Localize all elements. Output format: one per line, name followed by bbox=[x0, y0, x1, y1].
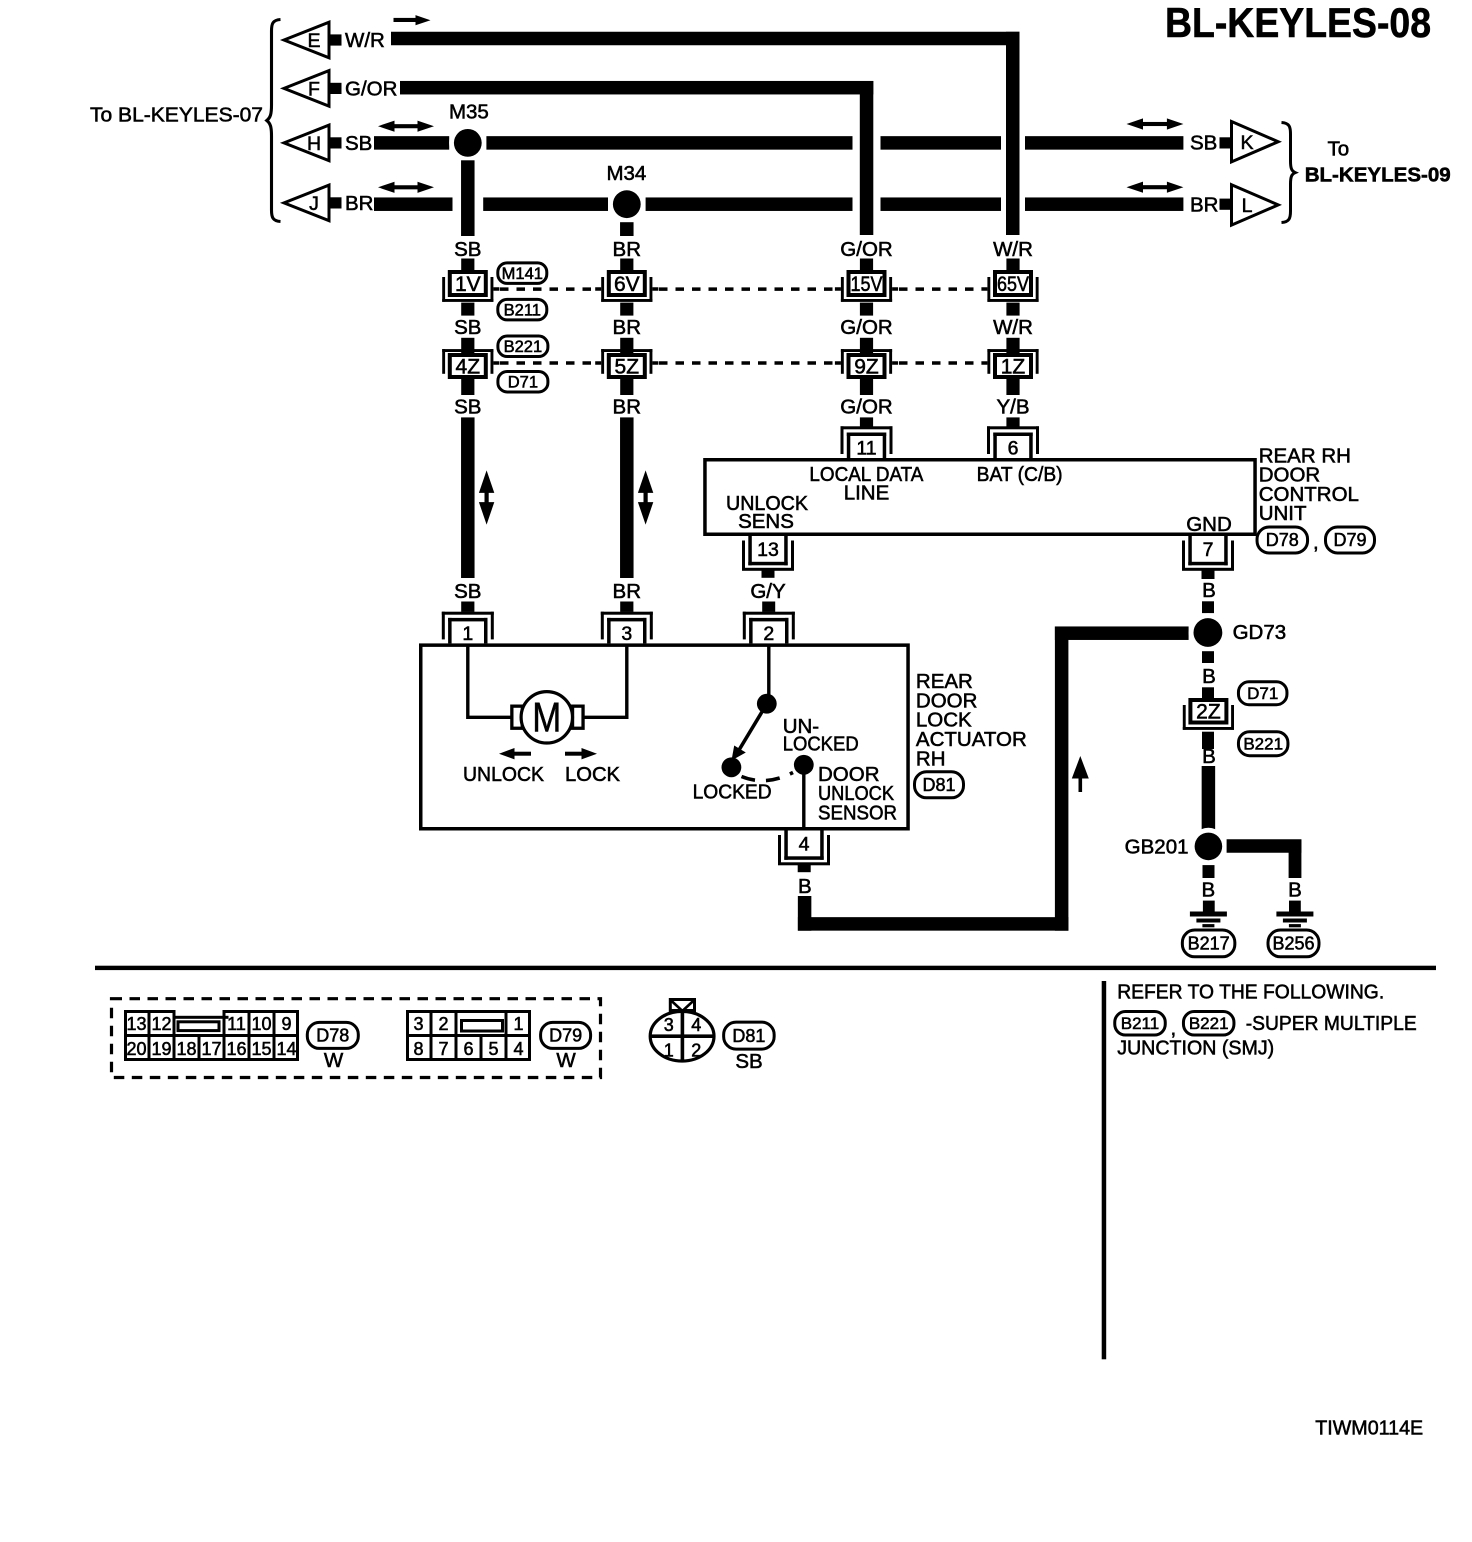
stub F bbox=[329, 83, 342, 94]
svg-text:7: 7 bbox=[438, 1039, 448, 1059]
svg-text:E: E bbox=[307, 30, 320, 52]
svg-text:GD73: GD73 bbox=[1233, 621, 1287, 644]
svg-text:GB201: GB201 bbox=[1125, 835, 1189, 858]
svg-text:W/R: W/R bbox=[993, 238, 1033, 261]
svg-text:4: 4 bbox=[691, 1015, 701, 1035]
ground symbol B217 bbox=[1190, 912, 1227, 917]
svg-text:11: 11 bbox=[856, 438, 876, 460]
double arrow row H left bbox=[378, 121, 395, 132]
wire dash below GB201 bbox=[1203, 865, 1215, 878]
oval B217 bbox=[1182, 930, 1235, 957]
dashed line Z-row bbox=[500, 361, 595, 365]
stub below 1Z bbox=[1006, 379, 1019, 395]
switch common dot bbox=[757, 694, 777, 714]
svg-text:-SUPER MULTIPLE: -SUPER MULTIPLE bbox=[1246, 1012, 1417, 1035]
wire pin3 to motor bbox=[584, 646, 627, 717]
svg-text:D79: D79 bbox=[549, 1026, 582, 1046]
wire B from pin 4 down bbox=[798, 896, 812, 931]
connector face D78 bbox=[124, 1010, 176, 1013]
svg-text:B: B bbox=[1288, 879, 1302, 902]
svg-text:B211: B211 bbox=[1121, 1014, 1159, 1033]
svg-text:9: 9 bbox=[281, 1014, 291, 1034]
separator vertical line bbox=[1102, 981, 1107, 1359]
svg-text:UNIT: UNIT bbox=[1259, 502, 1307, 525]
svg-text:B221: B221 bbox=[1189, 1014, 1229, 1033]
svg-text:SENSOR: SENSOR bbox=[818, 802, 897, 825]
svg-text:19: 19 bbox=[151, 1039, 171, 1059]
double arrow on SB wire bbox=[479, 470, 494, 493]
svg-text:3: 3 bbox=[664, 1015, 674, 1035]
svg-text:1: 1 bbox=[513, 1014, 523, 1034]
svg-text:LOCKED: LOCKED bbox=[783, 733, 859, 756]
right brace bbox=[1282, 123, 1296, 223]
stub above pin 1 bbox=[461, 602, 474, 612]
svg-text:SB: SB bbox=[345, 132, 372, 155]
svg-text:Y/B: Y/B bbox=[996, 396, 1029, 419]
svg-text:M34: M34 bbox=[606, 162, 646, 185]
svg-text:2: 2 bbox=[691, 1041, 701, 1061]
arrow right above W/R wire bbox=[394, 18, 418, 22]
wire G/OR corner vertical to column 3 bbox=[860, 81, 874, 235]
svg-text:D71: D71 bbox=[508, 373, 538, 391]
pin 2 door unlock sensor bbox=[743, 612, 795, 615]
svg-text:6: 6 bbox=[463, 1039, 473, 1059]
svg-text:9Z: 9Z bbox=[854, 355, 879, 378]
svg-text:JUNCTION (SMJ): JUNCTION (SMJ) bbox=[1117, 1037, 1274, 1060]
stub above pin 11 bbox=[860, 417, 873, 427]
svg-text:B: B bbox=[1202, 745, 1216, 768]
svg-text:SB: SB bbox=[454, 396, 481, 419]
svg-text:W/R: W/R bbox=[993, 316, 1033, 339]
svg-text:G/OR: G/OR bbox=[840, 316, 892, 339]
svg-text:H: H bbox=[307, 133, 321, 155]
svg-text:1V: 1V bbox=[455, 273, 481, 296]
wire B to GB201 bbox=[1202, 766, 1216, 833]
oval D81 detail bbox=[724, 1022, 775, 1049]
svg-text:M35: M35 bbox=[449, 101, 489, 124]
wire sensor dot to pin 4 bbox=[802, 772, 805, 828]
stub above 1Z bbox=[1006, 338, 1019, 353]
oval D79 ref bbox=[1326, 527, 1375, 553]
svg-text:RH: RH bbox=[916, 748, 946, 771]
svg-text:REFER TO THE FOLLOWING.: REFER TO THE FOLLOWING. bbox=[1117, 981, 1384, 1004]
svg-text:2Z: 2Z bbox=[1196, 701, 1221, 724]
svg-text:14: 14 bbox=[276, 1039, 296, 1059]
svg-text:5: 5 bbox=[488, 1039, 498, 1059]
svg-text:SB: SB bbox=[454, 238, 481, 261]
long wire BR to actuator bbox=[620, 417, 634, 578]
SMJ connector 9Z bbox=[849, 355, 885, 377]
svg-text:LINE: LINE bbox=[844, 481, 890, 504]
svg-text:12: 12 bbox=[151, 1014, 171, 1034]
svg-text:GND: GND bbox=[1186, 513, 1232, 536]
svg-text:BR: BR bbox=[613, 580, 641, 603]
wire G/OR row F horizontal bbox=[400, 81, 873, 95]
stub above B256 ground bbox=[1289, 901, 1301, 912]
wire B top horizontal to GD73 bbox=[1055, 626, 1189, 640]
junction GB201 bbox=[1190, 828, 1227, 865]
SMJ connector 15V bbox=[849, 272, 885, 295]
oval D79 detail bbox=[541, 1022, 591, 1048]
svg-text:SB: SB bbox=[454, 316, 481, 339]
oval B211 bbox=[498, 299, 547, 320]
double arrow row J left bbox=[378, 182, 395, 193]
wire pin1 to motor bbox=[468, 646, 511, 717]
stub J bbox=[329, 197, 342, 208]
arrow lock right bbox=[582, 748, 598, 759]
svg-text:B221: B221 bbox=[1243, 735, 1283, 754]
wire W/R corner vertical to column 4 bbox=[1006, 32, 1020, 235]
dashed line V-row bbox=[500, 287, 595, 291]
svg-text:16: 16 bbox=[226, 1039, 246, 1059]
wire SB row H segment 2 bbox=[486, 136, 852, 150]
stub E bbox=[329, 34, 342, 45]
svg-text:LOCK: LOCK bbox=[565, 763, 620, 786]
wire dash segment bbox=[1202, 601, 1214, 613]
wire B right vertical up bbox=[1055, 627, 1069, 931]
svg-text:B: B bbox=[1202, 665, 1216, 688]
svg-text:To BL-KEYLES-07: To BL-KEYLES-07 bbox=[90, 104, 263, 127]
wire BR row J segment 1 bbox=[374, 197, 453, 211]
arrow unlock left bbox=[499, 748, 515, 759]
stub K bbox=[1220, 137, 1232, 148]
svg-text:G/OR: G/OR bbox=[345, 77, 397, 100]
svg-text:M: M bbox=[532, 693, 561, 740]
SMJ connector 1V bbox=[450, 272, 486, 295]
SMJ connector 6V bbox=[609, 272, 645, 295]
svg-text:F: F bbox=[308, 78, 320, 100]
motor right tab bbox=[573, 706, 584, 728]
svg-text:G/Y: G/Y bbox=[750, 580, 786, 603]
wire B bottom horizontal bbox=[798, 917, 1069, 931]
stub above pin 2 bbox=[762, 602, 775, 612]
svg-text:BL-KEYLES-08: BL-KEYLES-08 bbox=[1165, 0, 1431, 46]
stub below pin 4 bbox=[798, 865, 811, 873]
SMJ connector 4Z bbox=[450, 355, 486, 377]
stub below pin 13 bbox=[762, 571, 775, 578]
column x=626.8 upper vertical wire bbox=[620, 222, 634, 236]
switch locked dot bbox=[722, 757, 742, 777]
connector face D81 cross bbox=[650, 1034, 714, 1038]
oval D71 bbox=[498, 371, 548, 392]
pin 1 rear door lock actuator bbox=[442, 612, 494, 615]
svg-text:D78: D78 bbox=[1266, 530, 1299, 550]
stub below 6V bbox=[620, 303, 633, 316]
svg-text:8: 8 bbox=[413, 1039, 423, 1059]
SMJ connector 2Z bbox=[1190, 700, 1226, 723]
svg-text:SENS: SENS bbox=[738, 510, 794, 533]
stub above 9Z bbox=[860, 338, 873, 353]
svg-text:18: 18 bbox=[176, 1039, 196, 1059]
svg-text:K: K bbox=[1240, 132, 1253, 154]
svg-text:B: B bbox=[1202, 579, 1216, 602]
oval B221 bbox=[498, 336, 548, 357]
oval B211 note bbox=[1115, 1012, 1166, 1036]
svg-text:SB: SB bbox=[454, 580, 481, 603]
junction M34 bbox=[608, 186, 645, 223]
oval M141 bbox=[498, 263, 547, 284]
svg-text:1: 1 bbox=[664, 1041, 674, 1061]
svg-text:B211: B211 bbox=[504, 301, 541, 319]
svg-text:B256: B256 bbox=[1272, 934, 1314, 954]
dashed switch arc bbox=[742, 773, 794, 781]
svg-text:W/R: W/R bbox=[345, 29, 385, 52]
svg-text:J: J bbox=[309, 193, 319, 215]
svg-text:4: 4 bbox=[799, 833, 810, 855]
svg-text:B: B bbox=[798, 875, 812, 898]
connector triangle L bbox=[1232, 185, 1279, 225]
stub below 15V bbox=[860, 303, 873, 316]
pin 3 rear door lock actuator bbox=[601, 612, 653, 615]
connector face D81 key tab bbox=[670, 1000, 694, 1011]
svg-text:D71: D71 bbox=[1247, 684, 1278, 703]
oval D78 ref bbox=[1257, 527, 1308, 553]
svg-text:BAT (C/B): BAT (C/B) bbox=[977, 463, 1063, 486]
stub below 1V bbox=[461, 303, 474, 316]
svg-text:6V: 6V bbox=[614, 273, 640, 296]
pin 11 LOCAL DATA LINE bbox=[841, 426, 893, 429]
connector face D79 bbox=[406, 1010, 531, 1013]
switch arm with arrowhead bbox=[739, 709, 764, 751]
connector triangle E bbox=[284, 22, 329, 58]
svg-text:5Z: 5Z bbox=[615, 355, 640, 378]
stub above B217 ground bbox=[1203, 901, 1215, 912]
connector triangle J bbox=[284, 185, 329, 221]
left brace bbox=[267, 20, 281, 222]
wire pin2 to switch bbox=[767, 646, 770, 695]
pin 4 actuator bottom bbox=[784, 831, 788, 860]
rear RH door control unit box bbox=[705, 460, 1255, 535]
stub above 6V bbox=[620, 259, 633, 271]
svg-text:BR: BR bbox=[345, 192, 373, 215]
svg-text:2: 2 bbox=[438, 1014, 448, 1034]
wire SB row H segment 4 bbox=[1025, 136, 1183, 150]
stub above pin 3 bbox=[620, 602, 633, 612]
svg-text:BL-KEYLES-09: BL-KEYLES-09 bbox=[1305, 163, 1451, 186]
svg-text:20: 20 bbox=[126, 1039, 146, 1059]
wire BR row J segment 3 bbox=[646, 197, 853, 211]
svg-text:W: W bbox=[324, 1049, 344, 1072]
switch unlocked sensor dot bbox=[794, 755, 814, 775]
connector triangle K bbox=[1232, 122, 1279, 162]
double arrow on BR wire bbox=[638, 470, 653, 493]
column x=467.8 upper vertical wire bbox=[461, 160, 475, 236]
oval B221 note bbox=[1183, 1012, 1234, 1036]
svg-text:G/OR: G/OR bbox=[840, 396, 892, 419]
motor left tab bbox=[512, 706, 522, 728]
connector triangle H bbox=[284, 125, 329, 161]
separator horizontal line bbox=[95, 966, 1436, 970]
SMJ connector 5Z bbox=[609, 355, 645, 377]
stub above 65V bbox=[1006, 259, 1019, 271]
svg-text:15V: 15V bbox=[851, 273, 883, 296]
stub above 1V bbox=[461, 259, 474, 271]
stub below 4Z bbox=[461, 379, 474, 395]
oval D71 right bbox=[1238, 682, 1287, 705]
stub above 5Z bbox=[620, 338, 633, 353]
svg-text:13: 13 bbox=[126, 1014, 146, 1034]
rear door lock actuator RH box bbox=[421, 645, 908, 829]
svg-text:L: L bbox=[1242, 195, 1253, 217]
svg-text:4Z: 4Z bbox=[456, 355, 481, 378]
svg-text:65V: 65V bbox=[997, 273, 1029, 296]
svg-text:17: 17 bbox=[201, 1039, 221, 1059]
wire BR row J segment 5 bbox=[1025, 197, 1183, 211]
pin 6 BAT bbox=[987, 426, 1039, 429]
stub above pin 6 bbox=[1006, 417, 1019, 427]
connector face D81 circle bbox=[650, 1011, 714, 1061]
svg-text:BR: BR bbox=[613, 396, 641, 419]
SMJ connector 1Z bbox=[995, 355, 1031, 377]
wire branch GB201 to right ground bbox=[1227, 839, 1302, 853]
oval D81 ref bbox=[915, 772, 964, 798]
pin 7 GND bbox=[1188, 536, 1192, 565]
SMJ connector 65V bbox=[995, 272, 1031, 295]
svg-text:SB: SB bbox=[735, 1050, 762, 1073]
svg-text:D79: D79 bbox=[1333, 530, 1366, 550]
svg-text:TIWM0114E: TIWM0114E bbox=[1315, 1417, 1423, 1440]
oval B256 bbox=[1268, 930, 1319, 957]
stub above 4Z bbox=[461, 338, 474, 353]
svg-text:4: 4 bbox=[513, 1039, 523, 1059]
svg-text:SB: SB bbox=[1190, 132, 1217, 155]
svg-text:1: 1 bbox=[462, 623, 473, 645]
double arrow row H right bbox=[1127, 118, 1144, 129]
svg-text:,: , bbox=[1313, 531, 1319, 554]
double arrow row J right bbox=[1127, 182, 1144, 193]
pin 13 UNLOCK SENS bbox=[748, 536, 752, 565]
svg-text:LOCKED: LOCKED bbox=[693, 780, 772, 803]
stub below 65V bbox=[1006, 303, 1019, 316]
svg-text:7: 7 bbox=[1203, 539, 1214, 561]
junction M35 bbox=[449, 124, 486, 161]
stub L bbox=[1220, 199, 1232, 210]
long wire SB to actuator bbox=[461, 417, 475, 578]
svg-text:B221: B221 bbox=[504, 338, 543, 356]
svg-text:10: 10 bbox=[251, 1014, 271, 1034]
ground symbol B256 bbox=[1276, 912, 1313, 917]
svg-text:2: 2 bbox=[763, 623, 774, 645]
motor M circle bbox=[521, 692, 572, 743]
svg-text:3: 3 bbox=[413, 1014, 423, 1034]
wire BR row J segment 4 bbox=[881, 197, 1002, 211]
svg-text:3: 3 bbox=[621, 623, 632, 645]
svg-text:15: 15 bbox=[251, 1039, 271, 1059]
svg-text:B217: B217 bbox=[1188, 934, 1230, 954]
svg-text:BR: BR bbox=[613, 238, 641, 261]
svg-text:W: W bbox=[556, 1049, 576, 1072]
wire SB row H segment 3 bbox=[881, 136, 1002, 150]
wire SB row H segment 1 bbox=[374, 136, 449, 150]
wire W/R row E horizontal bbox=[391, 32, 1020, 46]
svg-text:6: 6 bbox=[1008, 438, 1019, 460]
svg-text:11: 11 bbox=[227, 1014, 246, 1034]
svg-text:M141: M141 bbox=[502, 265, 543, 283]
svg-text:1Z: 1Z bbox=[1001, 355, 1026, 378]
wire BR row J segment 2 bbox=[483, 197, 608, 211]
stub above 15V bbox=[860, 259, 873, 271]
svg-text:UNLOCK: UNLOCK bbox=[463, 763, 544, 786]
svg-text:D78: D78 bbox=[316, 1026, 349, 1046]
oval B221 right bbox=[1238, 732, 1288, 756]
arrow up on B wire bbox=[1072, 756, 1089, 779]
svg-text:G/OR: G/OR bbox=[840, 238, 892, 261]
svg-text:D81: D81 bbox=[922, 775, 955, 795]
wire dash segment bbox=[1202, 651, 1214, 663]
svg-text:To: To bbox=[1328, 138, 1350, 161]
svg-text:BR: BR bbox=[613, 316, 641, 339]
stub H bbox=[329, 137, 342, 148]
stub below pin 7 bbox=[1202, 571, 1215, 580]
svg-text:D81: D81 bbox=[732, 1026, 765, 1046]
connector triangle F bbox=[284, 71, 329, 107]
dashed detail box bbox=[112, 999, 601, 1078]
stub below 5Z bbox=[620, 379, 633, 395]
svg-text:13: 13 bbox=[757, 539, 779, 561]
junction GD73 bbox=[1189, 613, 1227, 651]
stub below 2Z bbox=[1202, 732, 1214, 749]
svg-text:B: B bbox=[1202, 879, 1216, 902]
stub above 2Z bbox=[1202, 687, 1214, 698]
stub below 9Z bbox=[860, 379, 873, 395]
svg-text:BR: BR bbox=[1190, 194, 1218, 217]
oval D78 detail bbox=[307, 1022, 358, 1048]
